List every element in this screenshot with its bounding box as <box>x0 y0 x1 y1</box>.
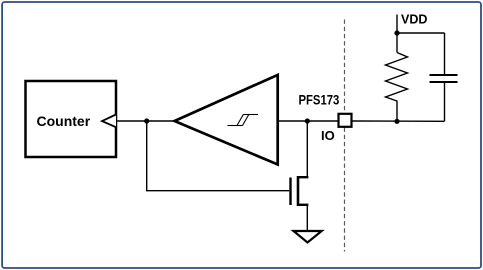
svg-text:PFS173: PFS173 <box>299 92 340 108</box>
svg-text:VDD: VDD <box>401 12 428 27</box>
svg-text:IO: IO <box>321 128 335 143</box>
svg-text:Counter: Counter <box>37 113 91 129</box>
